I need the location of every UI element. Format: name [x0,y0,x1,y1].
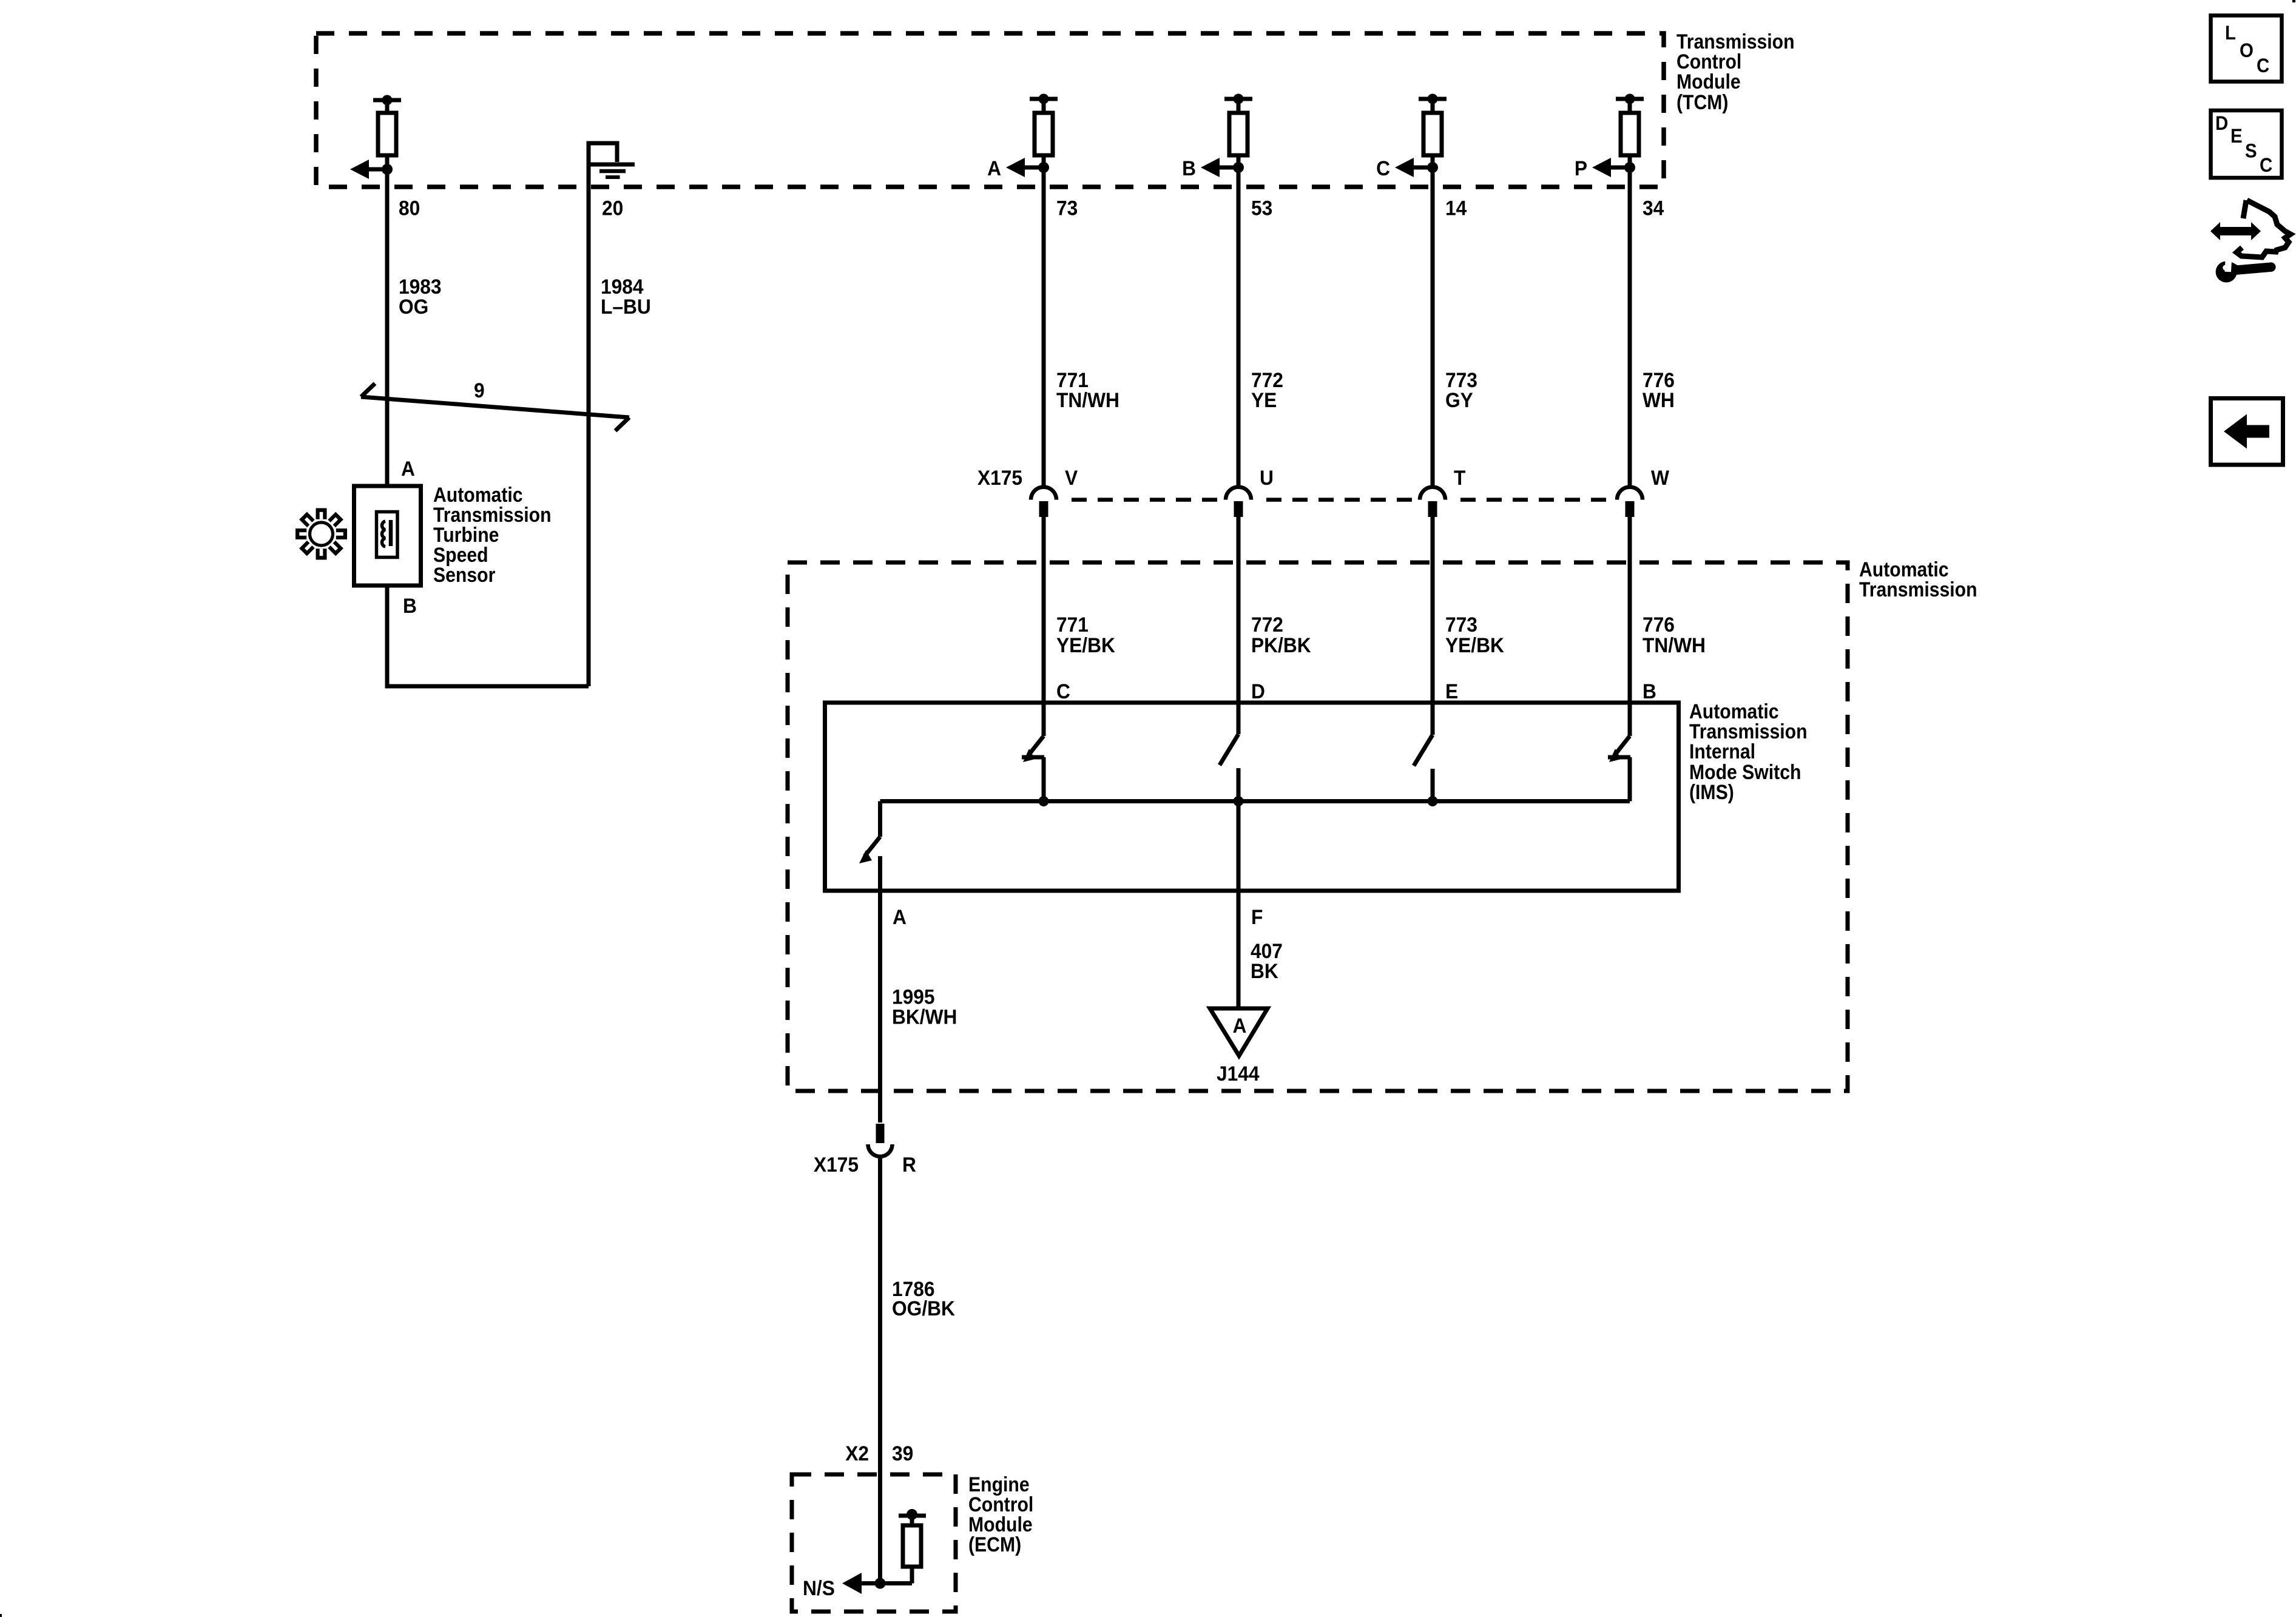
IMS label [1689,700,1808,803]
resistor in TCM at pin 80 [373,95,401,170]
junction dot E on bus [1428,796,1438,806]
wire 407 BK from pin F [1237,802,1241,1009]
connector X175 pin W [1617,487,1643,517]
connector X175 pin V [1031,487,1056,517]
sensor inner element box [377,512,398,558]
svg-text:PK/BK: PK/BK [1251,634,1311,658]
svg-text:N/S: N/S [803,1577,835,1601]
wire to N/S with junction [849,1581,912,1585]
N/S arrow [842,1573,862,1594]
gear icon [295,508,347,560]
svg-text:14: 14 [1445,197,1467,220]
svg-text:E: E [2230,125,2243,147]
switch E (open) [1414,735,1433,802]
sensor core bar [389,520,393,546]
corner mark top-right [2292,0,2295,2]
wires below connector row [1042,517,1046,736]
node junction at pin 80 [382,164,393,175]
svg-text:L–BU: L–BU [601,295,651,319]
Automatic Transmission box (dashed) [788,562,1848,1091]
svg-text:D: D [2215,112,2228,134]
svg-text:YE: YE [1251,389,1277,413]
Automatic Transmission Turbine Speed Sensor box [354,486,421,586]
connector X175 pin U [1226,487,1251,517]
LOC icon box [2211,16,2282,82]
svg-text:A: A [987,157,1001,181]
svg-text:R: R [902,1153,916,1177]
svg-text:O: O [2240,39,2254,61]
ECM label [968,1473,1033,1556]
connector-view wrench icon [2210,200,2291,283]
wire 1984 L-BU (pin 20 down to sensor loop) [587,143,591,686]
svg-text:V: V [1065,467,1078,490]
resistor in TCM at pin 34 [1616,94,1644,168]
svg-text:D: D [1251,680,1265,704]
svg-text:C: C [2257,55,2269,76]
svg-text:Transmission: Transmission [1859,578,1977,601]
sensor label [433,483,552,586]
svg-text:X175: X175 [814,1153,859,1177]
ground symbol in TCM at pin 20 [589,143,635,187]
arrow to A (internal TCM) at pin 80 [350,160,387,179]
connector outline [2237,200,2291,257]
svg-text:C: C [2260,154,2272,176]
double arrow [2210,222,2261,240]
svg-text:TN/WH: TN/WH [1643,634,1706,658]
resistor in TCM at pin 73 [1030,94,1058,168]
TCM module box (dashed) [316,33,1664,187]
svg-text:B: B [1182,157,1196,181]
svg-text:20: 20 [602,197,623,220]
svg-text:772: 772 [1251,613,1283,637]
svg-text:B: B [403,595,417,618]
wrench [2215,252,2272,283]
svg-text:X2: X2 [845,1442,869,1466]
node junction pin 34 [1624,162,1635,173]
wire 1786 OG/BK [878,1157,882,1584]
svg-text:80: 80 [399,197,420,220]
ground triangle J144 [1210,1008,1268,1056]
svg-text:A: A [401,457,415,481]
svg-text:(IMS): (IMS) [1689,780,1734,803]
svg-text:776: 776 [1643,613,1675,637]
TCM label [1676,30,1795,113]
arrow A internal TCM pin 73 [1006,158,1044,177]
back arrow icon box [2211,399,2283,465]
svg-text:73: 73 [1056,197,1078,220]
svg-text:BK: BK [1251,960,1278,984]
IMS box [825,703,1679,891]
svg-text:Sensor: Sensor [433,563,496,586]
arrow C internal TCM pin 14 [1395,158,1433,177]
wire 1983 OG (pin 80 to sensor A) [385,169,390,486]
svg-text:B: B [1643,680,1656,704]
arrow B internal TCM pin 53 [1201,158,1238,177]
connector X175 pin R [868,1124,893,1156]
IMS internal bus wire [880,799,1630,803]
svg-text:53: 53 [1251,197,1272,220]
DESC icon box [2211,110,2282,178]
svg-text:OG/BK: OG/BK [892,1297,955,1321]
node junction pin 73 [1038,162,1049,173]
wire 773 GY [1431,167,1435,485]
ECM box (dashed) [792,1474,956,1612]
svg-text:Module: Module [1676,70,1741,93]
switch D (open) [1220,734,1238,802]
svg-text:(ECM): (ECM) [968,1533,1021,1556]
switch C (closed, arrow) [1022,736,1044,802]
switch A (closed, arrow) [859,802,880,1123]
svg-text:F: F [1251,906,1263,930]
svg-text:9: 9 [474,379,485,403]
connector X175 pin T [1420,487,1445,517]
svg-text:C: C [1376,157,1390,181]
node junction pin 14 [1427,162,1438,173]
svg-text:T: T [1454,467,1465,490]
junction dot D on bus [1234,796,1244,806]
svg-text:34: 34 [1643,197,1664,220]
wire 772 YE [1237,167,1241,485]
svg-text:J144: J144 [1217,1062,1260,1086]
svg-text:GY: GY [1445,389,1473,413]
resistor in ECM [899,1509,926,1584]
resistor in TCM at pin 53 [1224,94,1252,168]
svg-text:OG: OG [399,295,428,319]
twisted pair symbol 9 [361,383,629,431]
svg-text:X175: X175 [977,467,1022,490]
svg-text:(TCM): (TCM) [1676,90,1728,113]
svg-text:773: 773 [1445,613,1477,637]
junction dot C on bus [1039,796,1049,806]
corner mark bottom-left [0,1614,2,1617]
wire 776 WH [1628,167,1632,485]
wire 771 TN/WH [1042,167,1046,485]
connector in-line dashes between arcs [1061,498,1613,502]
svg-text:Internal: Internal [1689,740,1755,763]
wire sensor B down and over to pin 20 wire [387,586,589,686]
svg-text:771: 771 [1056,613,1089,637]
switch B (closed, arrow) [1608,736,1630,802]
svg-text:C: C [1056,680,1070,704]
svg-text:S: S [2245,140,2257,161]
svg-text:L: L [2225,22,2236,44]
resistor in TCM at pin 14 [1419,94,1447,168]
arrow P internal TCM pin 34 [1592,158,1630,177]
svg-text:E: E [1445,680,1458,704]
svg-text:A: A [1233,1014,1247,1038]
sensor coil squiggle [382,521,385,547]
svg-text:TN/WH: TN/WH [1056,389,1119,413]
svg-text:P: P [1575,157,1587,181]
svg-text:U: U [1260,467,1274,490]
svg-text:W: W [1651,467,1670,490]
svg-text:A: A [893,906,907,930]
svg-text:WH: WH [1643,389,1675,413]
node junction pin 53 [1233,162,1244,173]
svg-text:39: 39 [892,1442,913,1466]
svg-text:BK/WH: BK/WH [892,1005,957,1029]
svg-text:YE/BK: YE/BK [1056,634,1115,658]
svg-text:YE/BK: YE/BK [1445,634,1504,658]
